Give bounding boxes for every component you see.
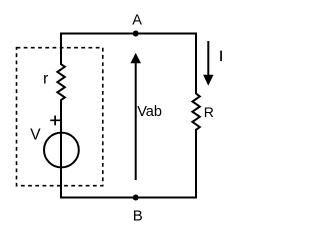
svg-text:A: A [132,12,142,28]
svg-text:R: R [204,104,214,120]
svg-text:r: r [43,70,49,87]
svg-text:Vab: Vab [137,104,162,120]
svg-text:B: B [133,208,143,225]
svg-text:V: V [30,126,41,143]
